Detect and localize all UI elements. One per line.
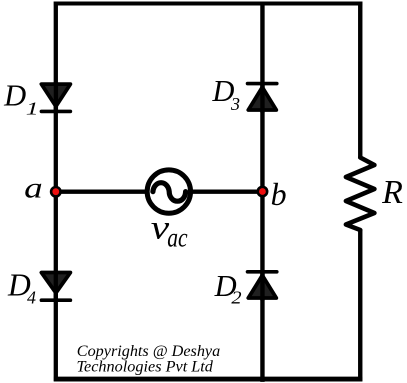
svg-text:R: R <box>381 174 403 211</box>
wire middle vertical <box>260 2 264 382</box>
diode D2 <box>248 272 277 301</box>
wire right vertical upper <box>358 2 362 159</box>
svg-text:3: 3 <box>230 94 240 114</box>
label D1 <box>3 79 39 119</box>
wire top horizontal <box>54 2 362 6</box>
diode D3 <box>248 84 277 113</box>
svg-text:D: D <box>3 79 26 113</box>
node a junction dot <box>50 186 62 198</box>
svg-text:4: 4 <box>27 288 36 308</box>
wire bottom horizontal <box>54 377 362 382</box>
svg-text:1: 1 <box>26 98 39 118</box>
wire left vertical <box>54 2 58 382</box>
diode D4 <box>41 271 70 301</box>
svg-text:2: 2 <box>231 288 241 308</box>
diode D1 <box>41 82 70 111</box>
watermark copyright text <box>77 343 221 376</box>
wire middle horizontal a-b <box>56 190 263 194</box>
label D2 <box>214 269 242 308</box>
svg-text:Technologies Pvt Ltd: Technologies Pvt Ltd <box>77 359 214 376</box>
node b junction dot <box>256 186 268 198</box>
svg-text:a: a <box>24 172 43 205</box>
resistor R zigzag <box>346 158 375 231</box>
svg-text:ac: ac <box>167 223 187 253</box>
wire right vertical lower <box>358 230 362 382</box>
label D3 <box>211 74 240 114</box>
label D4 <box>7 267 36 307</box>
label vac <box>151 210 188 253</box>
svg-text:b: b <box>271 176 287 212</box>
svg-text:Copyrights @ Deshya: Copyrights @ Deshya <box>77 343 220 360</box>
ac source vac circle <box>147 170 190 213</box>
